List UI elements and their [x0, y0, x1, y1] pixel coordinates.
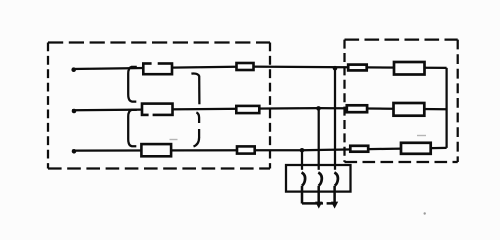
- resistor Rs2 (bank, phase B): [347, 105, 367, 112]
- terminal dot phase C: [72, 149, 77, 154]
- right coupling bracket (phase B-C) upper curve: [196, 112, 199, 123]
- terminal dot phase A: [71, 67, 76, 72]
- left machine enclosure bottom edge: [48, 167, 270, 169]
- terminal dot phase B: [72, 109, 77, 114]
- resistor-bank enclosure left edge: [343, 40, 345, 162]
- resistor Rb3 (bank, phase C, large): [401, 143, 431, 154]
- scan speck below resistor bank: [424, 212, 426, 214]
- star-point vertical bus wire: [445, 68, 447, 148]
- phase A wire (top row): [72, 67, 447, 69]
- resistor Rs1 (bank, phase A): [348, 65, 367, 71]
- winding W2 bottom border scan gap: [149, 113, 153, 116]
- coupling bracket (phase B-C): [128, 110, 137, 146]
- resistor R2 (phase B, machine side): [236, 106, 259, 113]
- phase C wire (bottom row): [72, 148, 447, 151]
- left machine enclosure right edge: [269, 43, 271, 169]
- resistor Rb1 (bank, phase A, large): [394, 62, 425, 75]
- resistor-bank enclosure bottom edge: [345, 161, 458, 163]
- drop wire phase A to switch: [334, 68, 336, 170]
- winding W1 (phase A): [143, 64, 172, 75]
- junction node phase A to switch: [333, 66, 338, 71]
- short-circuit bar wire: [302, 202, 335, 205]
- right coupling bracket (phase B-C) mid dash: [198, 129, 200, 138]
- switch contact blade 2: [318, 172, 321, 185]
- switch contact blade 3: [334, 172, 337, 185]
- resistor-bank enclosure right edge: [457, 40, 459, 162]
- junction node phase C to switch: [300, 148, 305, 153]
- scan smudge above winding W3: [170, 139, 178, 140]
- junction node phase B to switch: [316, 106, 321, 111]
- winding W3 (phase C): [141, 144, 171, 156]
- shorting switch box: [286, 165, 351, 192]
- actuation arrow on lead 2: [315, 202, 322, 209]
- lower lead wire 1: [301, 186, 304, 204]
- drop wire phase C to switch: [301, 150, 303, 170]
- resistor-bank enclosure top edge: [345, 38, 458, 40]
- left machine enclosure left edge: [47, 43, 49, 169]
- short-circuit bar scan gap: [323, 202, 327, 205]
- lower lead wire 3: [333, 186, 336, 205]
- resistor Rb2 (bank, phase B, large): [394, 103, 425, 116]
- resistor R3 (phase C, machine side): [237, 146, 255, 153]
- winding W1 top border scan gap: [152, 62, 158, 66]
- right coupling bracket (phase B-C) bottom hook: [194, 138, 200, 147]
- scan smudge above resistor Rb3: [417, 135, 426, 136]
- switch contact blade 1: [302, 172, 305, 185]
- winding W2 (phase B): [142, 104, 173, 115]
- resistor Rs3 (bank, phase C): [350, 146, 368, 152]
- coupling bracket (phase A-B): [128, 67, 137, 102]
- right coupling bracket (phase A-B): [191, 73, 199, 104]
- lower lead wire 2: [317, 186, 320, 205]
- phase B wire (middle row): [72, 108, 447, 110]
- left machine enclosure top edge: [48, 41, 270, 43]
- resistor R1 (phase A, machine side): [237, 63, 254, 70]
- drop wire phase B to switch: [318, 108, 320, 169]
- actuation arrow on lead 3: [331, 202, 338, 209]
